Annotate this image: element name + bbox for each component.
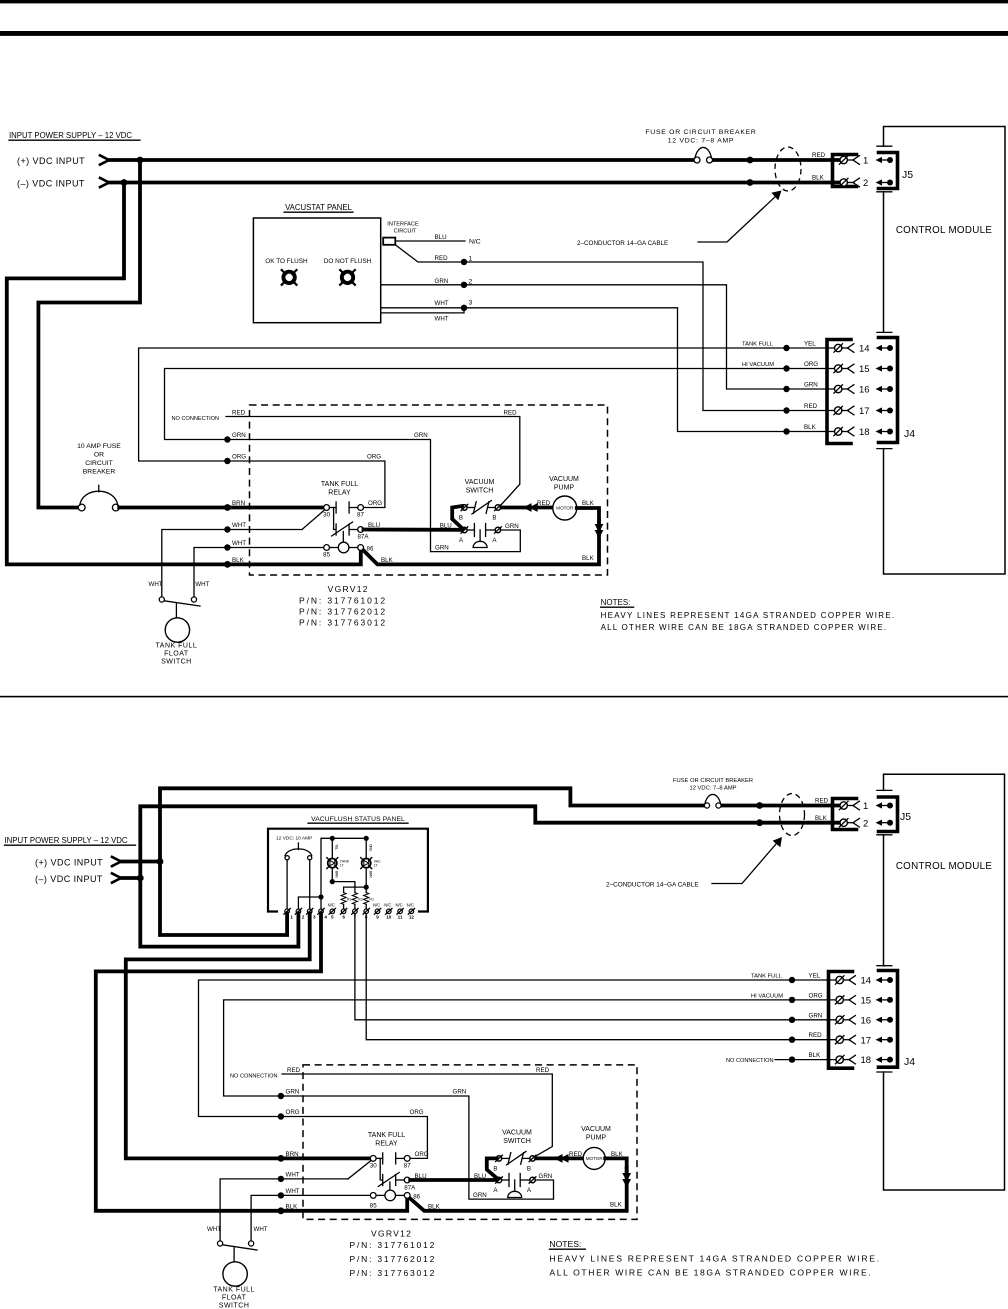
d2 wire BLU relay to vacuum switch — [410, 1178, 496, 1182]
svg-text:VACUUM: VACUUM — [465, 479, 495, 486]
svg-text:PUMP: PUMP — [554, 485, 575, 492]
svg-text:1: 1 — [863, 156, 868, 167]
panel junction LED2 bottom — [364, 885, 369, 890]
svg-text:SWITCH: SWITCH — [161, 659, 192, 666]
TANK FULL relay link bar — [334, 508, 344, 543]
svg-text:18: 18 — [859, 427, 870, 438]
resistor R1 — [364, 893, 369, 905]
control module edge break ticks at J5 — [877, 146, 892, 448]
svg-text:15: 15 — [861, 996, 872, 1007]
svg-text:HI VACUUM: HI VACUUM — [742, 362, 774, 368]
svg-text:GRN: GRN — [505, 523, 519, 530]
svg-text:TANK FULL: TANK FULL — [742, 342, 774, 348]
J5 connector housing (left) — [833, 155, 857, 187]
svg-text:17: 17 — [861, 1035, 872, 1046]
svg-text:30: 30 — [323, 512, 330, 519]
svg-text:5: 5 — [331, 915, 334, 920]
2-conductor cable ellipse — [775, 147, 801, 191]
svg-text:MOTOR: MOTOR — [556, 506, 574, 511]
svg-text:FUSE OR CIRCUIT BREAKER: FUSE OR CIRCUIT BREAKER — [645, 129, 756, 136]
svg-text:RED: RED — [812, 152, 826, 159]
d2 junction GRN row — [278, 1093, 284, 1099]
svg-text:WHT: WHT — [286, 1188, 300, 1195]
svg-text:ORG: ORG — [286, 1109, 300, 1116]
d2 TANK FULL relay contact 87A — [378, 1173, 410, 1187]
svg-text:PUMP: PUMP — [586, 1135, 607, 1142]
svg-text:ORG: ORG — [368, 844, 372, 852]
svg-text:J4: J4 — [904, 1056, 915, 1068]
svg-text:YEL: YEL — [804, 341, 816, 348]
J4 connector housing (left) — [827, 340, 851, 444]
svg-text:DO NOT FLUSH: DO NOT FLUSH — [324, 258, 372, 265]
d2 wire WHT1 diagonal to relay 30 — [348, 1160, 371, 1179]
d2 vacuum switch contact B — [496, 1151, 536, 1165]
d2 junction ORG row — [278, 1113, 284, 1119]
svg-text:B: B — [527, 1165, 531, 1172]
svg-text:P/N: 317761012: P/N: 317761012 — [350, 1240, 437, 1250]
junction WHT pin 3 — [461, 305, 467, 311]
d1 vacuum switch contact B — [461, 501, 501, 515]
svg-text:16: 16 — [861, 1015, 872, 1026]
wire stub to J4 pin 16 — [787, 388, 835, 390]
panel wire R1 to pin 8 lower — [365, 904, 367, 909]
svg-text:VACUUM: VACUUM — [581, 1126, 611, 1133]
d2 wire (-) stub — [122, 876, 140, 880]
d1 tank full float switch contacts — [159, 597, 200, 606]
wire motor to BLK down — [577, 508, 599, 524]
d2 wire ORG row to relay 87 — [281, 1117, 428, 1159]
svg-text:INTERFACE: INTERFACE — [387, 222, 419, 228]
svg-text:FLOAT: FLOAT — [222, 1295, 247, 1302]
svg-text:WHT: WHT — [232, 522, 246, 529]
svg-text:1: 1 — [469, 256, 473, 263]
panel wire R2 to pin 7 — [354, 904, 356, 909]
d2 junction (-) cable — [756, 819, 763, 826]
d2 control module edge break ticks at J5 — [877, 790, 892, 1072]
J4-2 pin 15 socket — [835, 996, 855, 1005]
d2 wire GRN loop to vacuum switch A — [281, 1096, 554, 1199]
svg-text:14: 14 — [859, 344, 870, 355]
svg-text:GRN: GRN — [804, 382, 818, 389]
svg-text:ORG: ORG — [410, 1109, 424, 1116]
svg-text:VACUUM: VACUUM — [502, 1130, 532, 1137]
wire jumper B to A — [452, 506, 463, 529]
J5-2 connector housing (left) — [833, 799, 857, 830]
control module edge break ticks at J4 — [877, 331, 892, 333]
panel junction LED1 bottom — [330, 879, 335, 884]
svg-text:BREAKER: BREAKER — [83, 469, 116, 476]
svg-text:RED: RED — [569, 1151, 583, 1158]
panel wire R1 to pin 8 — [365, 887, 367, 893]
svg-text:BLK: BLK — [809, 1052, 822, 1059]
svg-text:2–CONDUCTOR 14–GA CABLE: 2–CONDUCTOR 14–GA CABLE — [606, 882, 699, 889]
svg-text:TANK FULL: TANK FULL — [156, 643, 198, 650]
svg-text:R3: R3 — [347, 898, 352, 902]
junction J4 pin 15 wire — [783, 365, 789, 371]
svg-text:ORG: ORG — [368, 500, 382, 507]
panel wire LED1 anode — [331, 838, 333, 858]
mid-page separator rule — [0, 696, 1008, 698]
wire (+) fuse to J5 pin 1 — [713, 158, 841, 162]
svg-text:GRN: GRN — [539, 1173, 553, 1180]
d2 TANK FULL relay link bar — [380, 1158, 390, 1190]
J4-2 wire-entry arrow 5 — [876, 1057, 894, 1063]
junction J4 pin 14 wire — [783, 345, 789, 351]
J4-2 wire-entry arrow 2 — [876, 997, 894, 1003]
svg-text:BLK: BLK — [286, 1203, 299, 1210]
wire J4 pin15 to GRN row — [165, 369, 787, 440]
junction (-) cable — [747, 179, 754, 186]
svg-text:18: 18 — [861, 1055, 872, 1066]
svg-text:SWITCH: SWITCH — [503, 1138, 531, 1145]
svg-text:P/N: 317761012: P/N: 317761012 — [299, 596, 387, 606]
svg-text:RED: RED — [232, 410, 246, 417]
svg-text:6: 6 — [342, 915, 345, 920]
wire BLU relay to vacuum switch — [364, 528, 462, 532]
svg-text:MOTOR: MOTOR — [586, 1156, 604, 1161]
svg-text:CIRCUIT: CIRCUIT — [85, 460, 113, 467]
svg-text:BLK: BLK — [582, 500, 595, 507]
wire BRN fuse to relay 30 — [119, 506, 323, 510]
svg-text:RED: RED — [536, 1067, 550, 1074]
d2 junction BLK row — [278, 1207, 285, 1214]
svg-text:P/N: 317763012: P/N: 317763012 — [350, 1268, 437, 1278]
svg-text:ORG: ORG — [232, 454, 246, 461]
svg-text:VACUUM: VACUUM — [549, 476, 579, 483]
svg-text:HEAVY LINES REPRESENT 14GA: HEAVY LINES REPRESENT 14GA STRANDED COPP… — [549, 1254, 880, 1264]
junction J4 pin 16 wire — [783, 386, 789, 392]
svg-text:VACUFLUSH STATUS PANEL: VACUFLUSH STATUS PANEL — [311, 816, 405, 823]
svg-text:WHT: WHT — [254, 1226, 268, 1233]
d2 wire WHT1 to float switch — [220, 1179, 348, 1241]
svg-text:GRN: GRN — [453, 1089, 467, 1096]
svg-text:N/C: N/C — [407, 903, 414, 908]
page header rule — [0, 31, 1008, 36]
wire panel pin8 to J4 pin17 — [366, 914, 792, 1040]
svg-text:RED: RED — [287, 1067, 301, 1074]
svg-text:GRN: GRN — [414, 432, 428, 439]
J4-2 pin 17 socket — [835, 1035, 855, 1044]
status panel pin numbers — [290, 915, 414, 920]
junction (-) branch — [121, 179, 128, 186]
svg-text:INPUT POWER SUPPLY – 12 VDC: INPUT POWER SUPPLY – 12 VDC — [5, 836, 128, 845]
svg-text:P/N: 317762012: P/N: 317762012 — [350, 1254, 437, 1264]
d2 wire RED no-connection to vacuum switch B — [282, 1074, 552, 1156]
J4 pin 18 socket — [834, 427, 854, 436]
svg-text:VGRV12: VGRV12 — [371, 1229, 412, 1239]
J5 pin 1 socket — [839, 156, 859, 165]
svg-text:ORG: ORG — [804, 361, 818, 368]
J5-2 wire-entry arrow 1 — [876, 802, 894, 808]
panel wire pin3 to fuse — [309, 860, 311, 909]
svg-text:BLK: BLK — [428, 1203, 441, 1210]
J4-2 pin 16 socket — [835, 1016, 855, 1025]
J4 wire-entry arrow 2 — [876, 365, 894, 371]
LED2 hi vacuum light — [361, 858, 372, 869]
svg-text:(+) VDC INPUT: (+) VDC INPUT — [35, 858, 103, 868]
svg-text:J5: J5 — [900, 811, 911, 823]
d2 flow arrows to motor — [554, 1154, 569, 1163]
svg-text:FLOAT: FLOAT — [164, 651, 189, 658]
svg-text:B: B — [492, 515, 496, 522]
panel wire LED2 cathode — [365, 868, 367, 887]
wire stub to J4 pin 18 — [787, 431, 835, 433]
J4-2 pin 14 socket — [835, 976, 855, 985]
svg-text:NOTES:: NOTES: — [601, 598, 631, 607]
panel wire LED1 to R2 — [332, 882, 355, 893]
wire J4 pin14 to ORG row — [139, 348, 787, 461]
d2 wire stub NO CONNECTION pin 18 — [775, 1059, 792, 1061]
svg-text:85: 85 — [370, 1202, 377, 1209]
LED1 tank full light — [327, 858, 338, 869]
panel junction LED2 top — [364, 836, 369, 841]
d1 vacuum pump motor — [553, 496, 577, 520]
svg-text:10: 10 — [386, 915, 392, 920]
d2 tank full float switch contacts — [218, 1241, 258, 1250]
svg-text:GRN: GRN — [809, 1012, 823, 1019]
J4-2 connector housing (right) — [879, 971, 898, 1068]
svg-text:2: 2 — [863, 818, 868, 829]
flow arrows to motor — [523, 503, 538, 512]
svg-text:2–CONDUCTOR 14–GA CABLE: 2–CONDUCTOR 14–GA CABLE — [577, 240, 668, 247]
wire ORG row to relay 87 — [227, 461, 385, 508]
panel wire LED1 cathode — [331, 868, 333, 882]
junction ORG row — [224, 458, 230, 464]
wire panel pin3 to BRN row — [126, 914, 370, 1159]
svg-text:TANK FULL: TANK FULL — [321, 481, 358, 488]
svg-text:GRN: GRN — [435, 278, 449, 285]
wire GRN loop to vacuum switch A — [227, 440, 520, 552]
svg-text:10 AMP FUSE: 10 AMP FUSE — [77, 443, 121, 450]
wire (+) down to 10A fuse — [38, 160, 140, 508]
svg-text:87: 87 — [404, 1162, 411, 1169]
svg-text:WHT: WHT — [435, 316, 449, 323]
do-not-flush lamp — [340, 270, 355, 285]
J4 pin 16 socket — [834, 385, 854, 394]
wire RED no-connection to vacuum switch B — [226, 417, 520, 506]
wire (-) supply to J5 pin 2 — [110, 181, 840, 185]
svg-text:J4: J4 — [904, 428, 915, 440]
svg-text:BLK: BLK — [812, 175, 825, 182]
d2 wire (+) fuse to J5 pin 1 — [721, 804, 840, 808]
control module edge between J5 and J4 — [883, 192, 885, 333]
panel junction LED1 top — [330, 836, 335, 841]
d2 input arrow (+) — [112, 857, 121, 866]
svg-text:ORG: ORG — [367, 454, 381, 461]
ok-to-flush lamp — [282, 270, 297, 285]
svg-text:87A: 87A — [357, 534, 369, 541]
svg-text:TANK FULL: TANK FULL — [213, 1287, 255, 1294]
svg-text:WHT: WHT — [195, 581, 209, 588]
svg-text:(+) VDC INPUT: (+) VDC INPUT — [17, 156, 85, 166]
svg-text:NOTES:: NOTES: — [549, 1239, 581, 1249]
junction WHT row 1 — [224, 526, 230, 532]
input arrow (-) — [100, 178, 109, 187]
J5 connector housing (right) — [879, 153, 898, 189]
wire (+) 12V supply to fuse — [110, 158, 694, 162]
svg-text:CIRCUIT: CIRCUIT — [394, 229, 417, 235]
wire panel pin7 to J4 pin16 — [355, 914, 792, 1020]
svg-text:WHT: WHT — [286, 1171, 300, 1178]
d2 wire (+) stub — [122, 860, 160, 864]
wire RED from interface circuit — [395, 245, 786, 411]
panel wire R3 to pin 6 — [343, 904, 345, 909]
d1 vacuum switch contact A with diaphragm — [461, 524, 501, 548]
d2 VGRV12 dashed enclosure — [303, 1065, 637, 1220]
d2 junction J4 pin 18 wire — [789, 1056, 795, 1062]
d2 junction BRN row — [278, 1155, 285, 1162]
svg-text:87A: 87A — [404, 1184, 416, 1191]
d2 wire J4 pin14 to ORG row — [199, 980, 793, 1117]
d2 junction (+) cable — [756, 802, 763, 809]
svg-text:16: 16 — [859, 385, 870, 396]
svg-text:NO CONNECTION: NO CONNECTION — [726, 1058, 774, 1064]
svg-text:BLK: BLK — [582, 555, 595, 562]
wire panel pin1 to (+) — [160, 862, 287, 936]
d2 junction J4 pin 14 wire — [789, 977, 795, 983]
wire stub to J4 pin 15 — [787, 368, 835, 370]
svg-text:VGRV12: VGRV12 — [328, 584, 369, 594]
d2 wire WHT2 to float switch — [251, 1195, 370, 1241]
panel wire pin1 to fuse — [286, 860, 288, 909]
J5-2 pin 2 socket — [839, 818, 859, 827]
control module outline — [884, 127, 1006, 575]
junction GRN row — [224, 436, 230, 442]
J5-2 pin 1 socket — [839, 801, 859, 810]
svg-text:ORG: ORG — [415, 1151, 429, 1158]
svg-text:9: 9 — [376, 915, 379, 920]
J4 wire-entry arrow 1 — [876, 345, 894, 351]
svg-text:87: 87 — [357, 512, 364, 519]
svg-text:SWITCH: SWITCH — [219, 1303, 250, 1309]
status panel pin sockets 1-12 — [284, 908, 415, 914]
svg-text:11: 11 — [398, 915, 403, 920]
svg-text:CONTROL MODULE: CONTROL MODULE — [896, 861, 993, 872]
vacuflush status panel outline — [268, 829, 428, 912]
J5 wire-entry arrow 1 — [876, 157, 894, 163]
svg-text:J5: J5 — [902, 169, 913, 181]
svg-text:3: 3 — [469, 299, 473, 306]
d2 wire stub to J4 pin 15 — [792, 999, 836, 1001]
J4-2 wire-entry arrow 3 — [876, 1017, 894, 1023]
svg-text:GRN: GRN — [232, 432, 246, 439]
J4-2 wire-entry arrow 4 — [876, 1037, 894, 1043]
svg-text:BLK: BLK — [804, 424, 817, 431]
svg-text:HI VACUUM: HI VACUUM — [751, 993, 783, 999]
svg-text:RED: RED — [809, 1032, 823, 1039]
junction GRN pin 2 — [461, 282, 467, 288]
junction J4 pin 17 wire — [783, 407, 789, 413]
svg-text:RED: RED — [537, 500, 551, 507]
svg-text:OK TO FLUSH: OK TO FLUSH — [265, 258, 308, 265]
svg-text:1: 1 — [863, 801, 868, 812]
junction J4 pin 18 wire — [783, 428, 789, 434]
d2 float stem — [233, 1248, 235, 1262]
svg-text:GRN: GRN — [286, 1089, 300, 1096]
d2 fuse 7-8 amp — [704, 794, 721, 808]
svg-text:SWITCH: SWITCH — [466, 488, 494, 495]
svg-text:1: 1 — [290, 915, 293, 920]
page header bar — [0, 0, 1008, 3]
svg-text:WHT: WHT — [435, 300, 449, 307]
TANK FULL relay contact 87A — [332, 522, 364, 536]
J5 wire-entry arrow 2 — [876, 179, 894, 185]
svg-text:BRN: BRN — [232, 500, 245, 507]
J4-2 wire-entry arrow 1 — [876, 977, 894, 983]
svg-text:12: 12 — [409, 915, 415, 920]
svg-text:30: 30 — [370, 1162, 377, 1169]
svg-text:BLK: BLK — [610, 1202, 623, 1209]
d2 control module outline — [884, 774, 1005, 1190]
svg-text:ALL OTHER WIRE CAN BE 18G: ALL OTHER WIRE CAN BE 18GA STRANDED COPP… — [549, 1268, 872, 1278]
junction BLK row — [224, 561, 231, 568]
d2 junction WHT row 2 — [278, 1192, 284, 1198]
svg-text:17: 17 — [859, 406, 870, 417]
svg-text:YEL: YEL — [809, 973, 821, 980]
d2 input arrow (-) — [112, 873, 121, 882]
svg-text:N/C: N/C — [373, 903, 380, 908]
svg-text:15: 15 — [859, 364, 870, 375]
svg-text:2: 2 — [863, 178, 868, 189]
d1 float stem — [175, 604, 177, 618]
svg-text:N/C: N/C — [395, 903, 402, 908]
svg-text:FUSE OR CIRCUIT BREAKER: FUSE OR CIRCUIT BREAKER — [673, 778, 753, 784]
panel wire pin2 — [298, 897, 321, 909]
d2 junction J4 pin 17 wire — [789, 1037, 795, 1043]
d2 wire switch B to motor — [536, 1157, 583, 1161]
wire GRN from vacustat panel — [381, 285, 787, 389]
J4 wire-entry arrow 4 — [876, 407, 894, 413]
svg-text:86: 86 — [367, 546, 374, 553]
d2 wire stub to J4 pin 17 — [792, 1039, 836, 1041]
d2 2-conductor cable ellipse — [780, 794, 805, 836]
vacustat panel box — [253, 218, 380, 323]
d2 cable leader arrow — [712, 837, 782, 884]
interface circuit component — [383, 238, 395, 245]
wire BLK to relay 86 — [227, 551, 360, 565]
junction (+) branch — [137, 157, 144, 164]
svg-text:14: 14 — [861, 976, 872, 987]
svg-text:GRN: GRN — [473, 1192, 487, 1199]
d2 junction (+) — [157, 858, 164, 865]
d2 junction WHT row 1 — [278, 1176, 284, 1182]
svg-text:3: 3 — [313, 915, 316, 920]
d2 control module edge break tick at J4 — [877, 965, 892, 967]
J4 pin 15 socket — [834, 364, 854, 373]
svg-text:RELAY: RELAY — [328, 490, 351, 497]
J4 pin 17 socket — [834, 406, 854, 415]
svg-text:OR: OR — [94, 452, 104, 459]
d2 wire jumper B to A — [487, 1158, 498, 1178]
wire stub to J4 pin 17 — [787, 410, 835, 412]
svg-text:86: 86 — [413, 1193, 420, 1200]
svg-text:WHT: WHT — [232, 540, 246, 547]
resistor R2 — [352, 893, 357, 905]
cable leader arrow — [698, 191, 782, 243]
VGRV12 dashed enclosure — [250, 405, 608, 575]
panel wire LED2 to R3 — [344, 887, 367, 893]
svg-text:(–) VDC INPUT: (–) VDC INPUT — [35, 874, 103, 884]
J5-2 connector housing (right) — [879, 797, 898, 832]
svg-text:B: B — [493, 1165, 497, 1172]
svg-text:BLK: BLK — [381, 557, 394, 564]
svg-text:N/C: N/C — [328, 903, 335, 908]
wire WHT1 to float switch — [162, 530, 302, 598]
wire (-) down to BLK row — [7, 183, 228, 565]
svg-text:NO CONNECTION: NO CONNECTION — [172, 416, 220, 422]
J4-2 connector housing (left) — [829, 972, 853, 1069]
junction (+) cable — [747, 157, 754, 164]
